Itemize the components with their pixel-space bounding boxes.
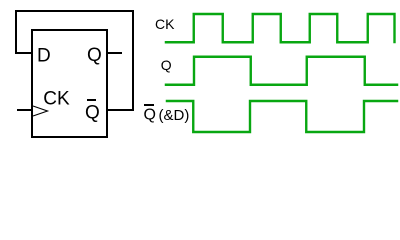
svg-text:Q: Q — [87, 45, 102, 66]
svg-text:(&D): (&D) — [159, 107, 190, 124]
svg-text:CK: CK — [43, 89, 70, 110]
svg-text:Q: Q — [144, 107, 156, 124]
svg-text:CK: CK — [155, 16, 175, 32]
svg-text:Q: Q — [161, 57, 172, 73]
svg-text:Q: Q — [85, 103, 100, 124]
svg-text:D: D — [37, 46, 51, 67]
